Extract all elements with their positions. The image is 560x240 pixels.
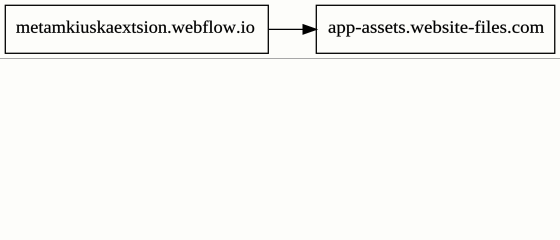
label metamkiuskaextsion.webflow.io: [16, 21, 254, 34]
arrowhead: [303, 24, 318, 34]
node box metamkiuskaextsion.webflow.io: [5, 5, 268, 53]
background: [0, 0, 560, 59]
bottom page edge gray row: [0, 58, 560, 59]
node box app-assets.website-files.com: [316, 5, 554, 53]
label app-assets.website-files.com: [329, 21, 544, 37]
wire edge from left node to right node: [269, 28, 303, 30]
